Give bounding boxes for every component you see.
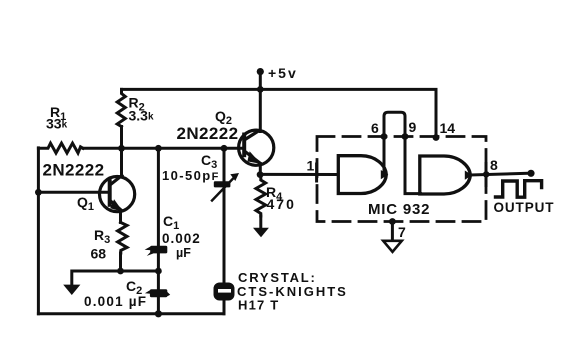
transistor Q1	[100, 176, 135, 212]
svg-text:14: 14	[440, 120, 456, 136]
wire: R3 bottom to ground line	[119, 253, 122, 271]
ground (pin 7)	[383, 241, 402, 252]
node: rail x +5V drop	[257, 86, 264, 93]
svg-text:MIC 932: MIC 932	[368, 201, 430, 218]
node: Q2 emitter junction	[257, 171, 264, 178]
pin 1 crossing tick	[315, 164, 318, 181]
svg-text:CRYSTAL:: CRYSTAL:	[238, 270, 317, 285]
resistor R3	[118, 222, 127, 253]
svg-text:H17 T: H17 T	[238, 298, 279, 313]
wire: Q2 emitter down to junction	[259, 164, 262, 175]
node: pin 9	[402, 133, 409, 140]
resistor R1	[38, 143, 83, 153]
svg-text:2N2222: 2N2222	[177, 124, 239, 143]
node: pin 6	[381, 133, 388, 140]
wire: Q1 emitter to R3	[119, 211, 122, 223]
IC U1 dashed box MIC 932	[317, 137, 486, 222]
resistor R4	[256, 175, 266, 216]
svg-text:470: 470	[267, 196, 296, 212]
capacitor C1	[145, 246, 168, 256]
node: pin 8	[483, 171, 489, 177]
capacitor C2	[145, 289, 170, 297]
node: ground line x C branch	[155, 268, 162, 275]
transistor Q2	[239, 130, 274, 165]
wire: Q1 base wire	[38, 191, 109, 194]
node: bottom rail x C branch	[155, 310, 162, 317]
ground (below R4)	[253, 228, 269, 238]
wire: +5V top rail	[122, 89, 437, 137]
gate U1b	[420, 156, 471, 194]
wire: +5V drop to Q2 collector	[259, 72, 262, 132]
wire: emitter junction to gate 1 input (pin 1)	[260, 173, 337, 176]
svg-text:68: 68	[91, 246, 107, 262]
wire: R4 to ground	[259, 216, 262, 229]
svg-text:10-50pF: 10-50pF	[162, 168, 220, 183]
node: pin 14	[433, 134, 440, 141]
wire: ground line (R3 / C1-C2 junction)	[72, 271, 159, 286]
svg-text:9: 9	[409, 119, 417, 135]
svg-text:0.001 µF: 0.001 µF	[84, 294, 147, 309]
wire: R2 bottom to Q1 collector	[120, 127, 123, 177]
node: bus x C3 branch	[221, 145, 228, 152]
node: R3 x ground line	[117, 268, 124, 275]
node: bus x R2/Q1 collector	[118, 145, 125, 152]
node: output terminal	[527, 170, 534, 177]
wire: 6-9 jumper loop	[384, 112, 405, 136]
node: left rail x base wire	[35, 189, 42, 196]
wire: crystal branch vertical (bus to bottom rail through C3 and crystal)	[223, 148, 226, 313]
capacitor C3 (variable)	[214, 181, 231, 187]
crystal Y1	[214, 283, 235, 301]
wire: pin 7 to ground	[391, 222, 394, 241]
wire: gate2 output to pin 8 and output terminal	[471, 173, 532, 175]
svg-text:7: 7	[398, 224, 406, 240]
ground (left)	[63, 285, 80, 295]
svg-text:1: 1	[307, 158, 315, 174]
output waveform symbol	[496, 181, 542, 198]
svg-text:6: 6	[371, 120, 379, 136]
resistor R2	[117, 89, 125, 126]
svg-text:2N2222: 2N2222	[43, 161, 105, 180]
svg-text:0.002: 0.002	[162, 231, 201, 246]
svg-text:µF: µF	[176, 246, 191, 260]
pin 8 crossing tick	[485, 164, 488, 186]
node: bus x C1 branch	[155, 145, 162, 152]
svg-text:+5v: +5v	[268, 65, 298, 81]
node: +5V terminal	[257, 68, 264, 75]
svg-text:Q1: Q1	[77, 194, 94, 213]
wire: C1/C2 branch	[157, 148, 160, 313]
svg-text:OUTPUT: OUTPUT	[494, 200, 555, 215]
wire: bottom rail	[38, 312, 224, 315]
svg-text:R3: R3	[94, 227, 110, 246]
wire: left vertical rail (Q1 base / bottom loop)	[37, 148, 40, 314]
svg-text:8: 8	[490, 157, 498, 173]
svg-text:3.3k: 3.3k	[129, 108, 154, 124]
node: pin 7	[389, 218, 396, 225]
svg-text:C1: C1	[163, 213, 179, 232]
gate U1a	[338, 156, 386, 194]
wire: main bus from R1 right to Q2 base	[83, 147, 244, 150]
wire: pin 6 stub to gate1 output	[383, 137, 386, 173]
wire: pin 9 to gate2 input	[405, 137, 421, 194]
